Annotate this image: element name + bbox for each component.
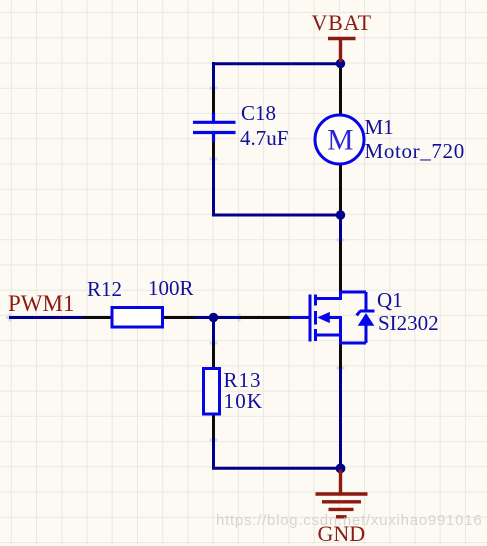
svg-text:M: M (327, 124, 353, 156)
